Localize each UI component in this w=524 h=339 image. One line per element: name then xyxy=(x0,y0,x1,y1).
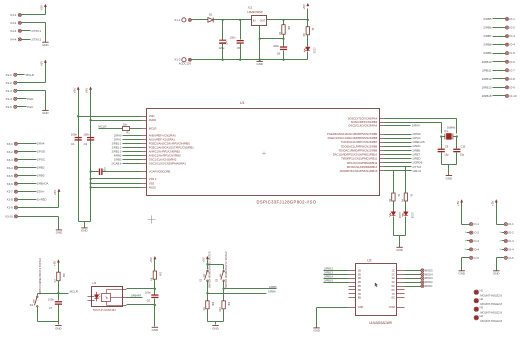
ground xyxy=(212,326,218,331)
capacitor C3 xyxy=(99,168,103,175)
svg-text:H4: H4 xyxy=(480,314,484,318)
resistor R8 xyxy=(307,20,309,27)
svg-text:8B: 8B xyxy=(358,296,361,300)
svg-text:1/RB4: 1/RB4 xyxy=(268,289,276,293)
svg-text:AN1/VREF-/CN3/RA1: AN1/VREF-/CN3/RA1 xyxy=(149,137,176,141)
ground xyxy=(259,60,261,62)
svg-text:8C: 8C xyxy=(392,296,395,300)
svg-text:VSS: VSS xyxy=(149,181,155,185)
svg-text:GND: GND xyxy=(152,328,158,332)
svg-text:DSPIC33FJ128GP802-I/SO: DSPIC33FJ128GP802-I/SO xyxy=(257,200,317,205)
wire C6 to ground xyxy=(154,299,156,327)
wire X3-9 to +5V xyxy=(18,207,59,209)
wire X4-4 net TX0:2 xyxy=(22,39,31,41)
U1 left pin stubs xyxy=(142,116,147,118)
svg-text:2/RA4: 2/RA4 xyxy=(37,142,45,146)
svg-text:PGC: PGC xyxy=(27,105,33,109)
svg-text:1/RB4/IR: 1/RB4/IR xyxy=(131,293,142,297)
wire U2 output 1 xyxy=(405,270,421,272)
wire net 2/RB13 xyxy=(324,274,349,276)
svg-text:H2: H2 xyxy=(480,297,484,301)
wire R4 to LED3 xyxy=(405,201,407,212)
svg-text:1/PGC: 1/PGC xyxy=(37,158,45,162)
svg-text:X4-2: X4-2 xyxy=(10,21,17,25)
svg-text:X3-2: X3-2 xyxy=(7,150,14,154)
svg-text:MOD2: MOD2 xyxy=(425,280,433,284)
wire net 1/RB6 xyxy=(385,150,412,152)
wire net 1/PGD xyxy=(385,134,412,136)
LED1 xyxy=(304,47,310,52)
svg-text:2/RA0: 2/RA0 xyxy=(114,133,122,137)
svg-text:GND: GND xyxy=(358,305,364,309)
svg-text:X3-10: X3-10 xyxy=(5,215,13,219)
connector pin MOD3 xyxy=(421,277,424,280)
svg-text:X1-1: X1-1 xyxy=(174,18,181,22)
supply +5V xyxy=(456,199,463,206)
svg-text:IO-3: IO-3 xyxy=(508,239,514,243)
svg-text:Q1: Q1 xyxy=(444,129,448,133)
svg-text:2/+RED: 2/+RED xyxy=(37,197,47,201)
cursor mark xyxy=(375,282,378,287)
wire net 2/RB1:3 xyxy=(123,151,142,153)
wire MCLR xyxy=(99,128,123,130)
svg-text:AN0/VREF+/CN2/RA0: AN0/VREF+/CN2/RA0 xyxy=(149,133,176,137)
wire net RA4 xyxy=(385,125,411,127)
mount hole H2 xyxy=(474,298,479,303)
svg-text:S1: S1 xyxy=(30,303,34,307)
wire net 2/RB12 xyxy=(493,78,506,80)
svg-text:GND: GND xyxy=(56,231,62,235)
svg-text:C9: C9 xyxy=(445,145,449,149)
svg-text:IO-1: IO-1 xyxy=(509,17,515,21)
junction xyxy=(282,38,284,40)
svg-text:GND: GND xyxy=(42,43,48,47)
wire 0V rail xyxy=(192,59,308,61)
svg-text:+5V: +5V xyxy=(85,87,89,94)
svg-text:X4-3: X4-3 xyxy=(10,29,17,33)
svg-text:2/RB5: 2/RB5 xyxy=(483,17,491,21)
svg-text:SOSCO/T1CK/CN0/RA4: SOSCO/T1CK/CN0/RA4 xyxy=(348,117,378,121)
svg-text:IO-4: IO-4 xyxy=(508,247,514,251)
svg-text:1/RB3: 1/RB3 xyxy=(114,157,122,161)
wire net 2/RB15 xyxy=(493,95,506,97)
svg-text:GND: GND xyxy=(55,326,61,330)
svg-text:C10: C10 xyxy=(461,145,466,149)
supply +5V xyxy=(53,259,60,266)
svg-text:TDO/DAC1LP/RP8/CN22/RB8: TDO/DAC1LP/RP8/CN22/RB8 xyxy=(341,144,378,148)
svg-text:2/RA4: 2/RA4 xyxy=(412,124,420,128)
svg-text:TMS/RP11/CN15/PMD1/RB11: TMS/RP11/CN15/PMD1/RB11 xyxy=(341,157,378,161)
svg-text:TCNT-P-CONT-B1: TCNT-P-CONT-B1 xyxy=(93,308,117,312)
svg-text:2/RB+DA: 2/RB+DA xyxy=(37,182,49,186)
connector pin IO-1 xyxy=(505,17,508,20)
svg-text:+5V: +5V xyxy=(72,87,76,94)
wire X3-10 to GND xyxy=(18,216,59,218)
svg-text:TCK/DAC1LN/RP7/CN23/RB7: TCK/DAC1LN/RP7/CN23/RB7 xyxy=(341,140,378,144)
wire net 2/RB5 xyxy=(493,18,506,20)
wire rail B xyxy=(90,90,92,222)
wire S1 to ground run xyxy=(37,307,39,322)
wire net 2/RB14 xyxy=(324,278,349,280)
svg-text:4B: 4B xyxy=(358,280,361,284)
svg-text:GND: GND xyxy=(212,326,218,330)
switch S3 xyxy=(220,270,224,281)
U2 right pin stubs xyxy=(397,270,405,272)
wire AVDD to U1 xyxy=(91,120,142,122)
svg-text:2/RB8: 2/RB8 xyxy=(483,43,491,47)
supply +5V xyxy=(149,256,156,263)
resistor R4 xyxy=(404,193,407,201)
junction xyxy=(222,59,224,61)
wire +5V to pin 1 xyxy=(496,203,498,225)
svg-text:MCLR: MCLR xyxy=(26,73,34,77)
wire X2-4 net PGD xyxy=(17,98,27,100)
mount hole H4 xyxy=(474,315,479,320)
junction xyxy=(222,19,224,21)
connector pin X7-1 xyxy=(504,223,507,226)
svg-text:LM2937ESP: LM2937ESP xyxy=(247,10,263,14)
ground xyxy=(313,328,319,333)
resistor R3 xyxy=(392,193,395,201)
wire net 2/RA0 xyxy=(123,135,142,137)
svg-text:SWITCH-MOMENTARY-2,TASTER: SWITCH-MOMENTARY-2,TASTER xyxy=(225,251,228,288)
svg-text:2/TX0:2: 2/TX0:2 xyxy=(31,37,41,41)
diode D1 xyxy=(208,18,213,23)
connector pin MOD1 xyxy=(421,284,424,287)
svg-text:C4: C4 xyxy=(224,41,228,45)
resistor R10 xyxy=(222,301,225,309)
U4 left pin stubs xyxy=(88,296,95,298)
svg-text:AN5/C1IN+/RP3/CN7/RB3: AN5/C1IN+/RP3/CN7/RB3 xyxy=(149,153,181,157)
svg-text:D1: D1 xyxy=(209,13,213,17)
svg-text:MCLR: MCLR xyxy=(70,290,78,294)
svg-text:2/RB1:2: 2/RB1:2 xyxy=(112,145,122,149)
wire pin 5 to GND xyxy=(462,257,470,259)
connector pin IO-4 xyxy=(505,43,508,46)
svg-text:C8: C8 xyxy=(277,51,281,55)
wire net MCLR xyxy=(59,293,69,295)
U1 origin cross xyxy=(262,152,266,156)
svg-text:100n: 100n xyxy=(48,298,54,302)
U4 right pin stubs xyxy=(123,289,127,291)
svg-text:100n: 100n xyxy=(145,290,151,294)
connector pin X6-3 xyxy=(467,240,470,242)
supply +5V xyxy=(202,256,209,263)
wire pin 5 to GND xyxy=(497,257,505,259)
wire to R3 xyxy=(393,171,395,193)
capacitor C8 xyxy=(283,39,285,47)
connector pin X7-5 xyxy=(504,256,507,259)
connector pin MOD5 xyxy=(421,269,424,272)
wire X4-2 to GND xyxy=(22,22,46,24)
svg-text:LED2: LED2 xyxy=(398,212,401,219)
svg-text:6C: 6C xyxy=(392,288,395,292)
supply +5V xyxy=(490,199,497,206)
wire net 2/RB15 xyxy=(324,282,349,284)
svg-text:C1: C1 xyxy=(71,142,75,146)
optocoupler U4 body xyxy=(92,287,123,307)
ground xyxy=(56,230,62,235)
svg-text:OSC1/CLKI/CN30/RA2: OSC1/CLKI/CN30/RA2 xyxy=(149,157,177,161)
svg-text:IO-7: IO-7 xyxy=(509,68,515,72)
svg-text:IO-1: IO-1 xyxy=(474,222,480,226)
svg-text:+5V: +5V xyxy=(202,256,206,263)
svg-text:GND: GND xyxy=(446,176,452,180)
svg-text:MOD4: MOD4 xyxy=(425,272,433,276)
svg-text:X3-5: X3-5 xyxy=(7,174,14,178)
wire to R7 xyxy=(58,263,60,273)
capacitor C1 xyxy=(75,137,82,141)
svg-text:C7: C7 xyxy=(49,306,53,310)
svg-text:1C: 1C xyxy=(392,268,395,272)
wire LED1 to rail xyxy=(307,52,309,60)
svg-text:2/RB2: 2/RB2 xyxy=(37,166,45,170)
connector pin MOD4 xyxy=(421,273,424,276)
wire U2 output 5 xyxy=(405,286,421,288)
svg-text:220u: 220u xyxy=(219,46,225,50)
svg-text:IO-2: IO-2 xyxy=(474,231,480,235)
svg-text:MOD1: MOD1 xyxy=(425,284,433,288)
svg-text:X2-5: X2-5 xyxy=(6,105,13,109)
wire OSC2 to crystal right xyxy=(385,118,457,120)
wire net 1/TTx2 xyxy=(385,166,412,168)
svg-text:X3-3: X3-3 xyxy=(7,158,14,162)
svg-text:GND: GND xyxy=(256,62,262,66)
wire +5V to pin 1 xyxy=(461,203,463,225)
resistor R2 xyxy=(283,20,285,25)
svg-text:C6: C6 xyxy=(147,298,151,302)
ground xyxy=(446,176,452,181)
svg-text:VDD: VDD xyxy=(149,114,155,118)
wire net 2/RB8 xyxy=(493,44,506,46)
svg-text:X1-2: X1-2 xyxy=(174,58,181,62)
svg-text:2/RB1:3: 2/RB1:3 xyxy=(112,149,122,153)
svg-text:ACDC12V: ACDC12V xyxy=(179,62,192,66)
crystal Q1 xyxy=(445,134,453,140)
resistor R1 xyxy=(123,127,130,131)
svg-text:2/RB10: 2/RB10 xyxy=(482,60,492,64)
ground xyxy=(55,326,61,331)
svg-text:C2: C2 xyxy=(84,142,88,146)
supply +5V rail B xyxy=(85,87,92,94)
U4 internal LED xyxy=(95,292,101,302)
wire net 2/RA1 xyxy=(123,139,142,141)
svg-text:IO-4: IO-4 xyxy=(474,247,480,251)
svg-text:X2-2: X2-2 xyxy=(6,81,13,85)
svg-text:MOUNT-HOLE2.8: MOUNT-HOLE2.8 xyxy=(480,294,502,298)
connector pin MOD2 xyxy=(421,281,424,284)
U4 internal wiring xyxy=(106,290,108,294)
svg-text:IO-9: IO-9 xyxy=(509,85,515,89)
junction xyxy=(206,263,208,265)
svg-text:X3-1: X3-1 xyxy=(7,142,14,146)
wire X3-4 net 2/RB2 xyxy=(18,167,37,169)
svg-text:X3-6: X3-6 xyxy=(7,182,14,186)
capacitor C4 electrolytic xyxy=(222,20,224,41)
svg-text:7B: 7B xyxy=(358,292,361,296)
svg-text:2B: 2B xyxy=(358,272,361,276)
svg-text:+5V: +5V xyxy=(149,256,153,263)
wire D1 to IC1 xyxy=(214,19,252,21)
junction xyxy=(154,288,156,290)
svg-text:IO-1: IO-1 xyxy=(508,222,514,226)
supply +5V rail A xyxy=(72,87,79,94)
wire X4-1 to +5V xyxy=(22,14,46,16)
svg-text:AN9/RP15/CN11/PMCS1/RB15: AN9/RP15/CN11/PMCS1/RB15 xyxy=(340,169,378,173)
connector pin IO-8 xyxy=(505,77,508,80)
svg-text:ULN2803ADWR: ULN2803ADWR xyxy=(369,321,392,325)
wire VCAP xyxy=(91,171,99,173)
svg-text:SWITCH-MOMENTARY-2,TASTER: SWITCH-MOMENTARY-2,TASTER xyxy=(39,258,42,295)
svg-text:PGD: PGD xyxy=(27,97,33,101)
svg-text:10u: 10u xyxy=(104,167,107,172)
connector pin IO-7 xyxy=(505,69,508,72)
svg-text:2/RB7: 2/RB7 xyxy=(483,34,491,38)
junction xyxy=(77,115,79,117)
svg-text:X2-1: X2-1 xyxy=(6,73,13,77)
wire U2 output 4 xyxy=(405,282,421,284)
U1 right pin stubs xyxy=(380,118,385,120)
connector pin X6-5 xyxy=(470,256,473,259)
svg-text:2/RA1: 2/RA1 xyxy=(114,137,122,141)
svg-text:PGED1/AN2/C2IN-/RP0/CN4/RB0: PGED1/AN2/C2IN-/RP0/CN4/RB0 xyxy=(149,141,190,145)
voltage regulator IC1 xyxy=(252,16,267,26)
junction xyxy=(206,292,208,294)
connector pin X7-2 xyxy=(502,232,505,234)
svg-text:LED1: LED1 xyxy=(312,47,315,54)
connector pin IO-9 xyxy=(505,86,508,89)
ground xyxy=(42,110,48,115)
svg-text:100n: 100n xyxy=(83,133,90,137)
svg-text:100n: 100n xyxy=(230,35,236,39)
svg-text:4C: 4C xyxy=(392,280,395,284)
svg-text:1/PGD: 1/PGD xyxy=(37,150,45,154)
switch S2 xyxy=(204,270,208,281)
wire R7 to junction xyxy=(58,281,60,294)
resistor R9 xyxy=(206,301,209,309)
svg-text:X3-9: X3-9 xyxy=(7,206,14,210)
wire to R4 xyxy=(405,167,407,193)
ground xyxy=(493,271,499,276)
junction xyxy=(89,119,91,121)
wire X1-1 to D1 xyxy=(192,19,208,21)
wire X2-2 to +5V xyxy=(17,82,46,84)
svg-text:IO-2: IO-2 xyxy=(508,231,514,235)
svg-text:GND: GND xyxy=(458,272,464,276)
wire OSC1 to crystal left xyxy=(385,122,442,124)
wire to R6 xyxy=(154,260,156,271)
wire X4-3 net TX0:1 xyxy=(22,30,31,32)
wire net 1/DRD6 xyxy=(385,162,412,164)
svg-text:2/DA+: 2/DA+ xyxy=(37,190,45,194)
ground xyxy=(152,327,158,332)
svg-text:15p: 15p xyxy=(460,153,465,157)
wire X3-3 net 1/PGC xyxy=(18,159,37,161)
svg-text:1B: 1B xyxy=(358,268,361,272)
svg-text:X3-4: X3-4 xyxy=(7,166,14,170)
svg-text:2/RB15: 2/RB15 xyxy=(324,278,333,282)
wire net 1/PGC xyxy=(385,138,412,140)
svg-text:LED3: LED3 xyxy=(411,212,414,219)
svg-text:SOSCI/RP4/CN1/RB4: SOSCI/RP4/CN1/RB4 xyxy=(351,120,378,124)
svg-text:X3-8: X3-8 xyxy=(7,198,14,202)
svg-text:+5V: +5V xyxy=(456,200,460,207)
svg-text:GND: GND xyxy=(313,329,319,333)
svg-text:OSC2/CLKO/CN29/PMA0/RA3: OSC2/CLKO/CN29/PMA0/RA3 xyxy=(149,161,187,165)
wire X3-6 net 2/RB+DA xyxy=(18,183,37,185)
svg-text:2/RB11: 2/RB11 xyxy=(482,68,492,72)
wire U4 emitter xyxy=(127,304,155,306)
svg-text:2/RB13: 2/RB13 xyxy=(482,85,492,89)
wire to S1 xyxy=(38,293,59,295)
svg-text:2/RB13: 2/RB13 xyxy=(324,271,333,275)
wire X3-5 net 1/RB3 xyxy=(18,175,37,177)
capacitor C5 xyxy=(240,20,242,40)
svg-text:4/RB2: 4/RB2 xyxy=(114,153,122,157)
svg-text:AVDD: AVDD xyxy=(149,118,156,122)
wire X3-8 net 2/+RED xyxy=(18,199,37,201)
wire U2 output 2 xyxy=(405,274,421,276)
svg-text:GND: GND xyxy=(493,272,499,276)
svg-text:1/RLx2: 1/RLx2 xyxy=(412,169,421,173)
supply +5V xyxy=(53,189,60,196)
connector pin IO-10 xyxy=(505,94,508,97)
svg-text:+5V: +5V xyxy=(40,4,44,11)
switch S1 xyxy=(37,294,39,296)
svg-text:MOD3: MOD3 xyxy=(425,276,433,280)
junction xyxy=(282,19,284,21)
svg-text:X4-4: X4-4 xyxy=(10,38,17,42)
svg-text:VCAP/VDDCORE: VCAP/VDDCORE xyxy=(149,170,171,174)
junction xyxy=(222,287,224,289)
svg-text:GND: GND xyxy=(396,248,402,252)
svg-text:+5V: +5V xyxy=(40,60,44,67)
junction xyxy=(440,135,442,137)
svg-text:X3-7: X3-7 xyxy=(7,190,14,194)
wire S3 bottom xyxy=(223,282,225,301)
svg-text:PGEC1/AN3/OA1OUT/RP1/CN5/RB1: PGEC1/AN3/OA1OUT/RP1/CN5/RB1 xyxy=(149,145,194,149)
svg-text:100n: 100n xyxy=(273,44,279,48)
svg-text:RP12/CN14/PMD0/RB12: RP12/CN14/PMD0/RB12 xyxy=(347,161,378,165)
svg-text:AVSS: AVSS xyxy=(149,185,156,189)
wire net 2/RB7 xyxy=(493,36,506,38)
svg-text:3C: 3C xyxy=(392,276,395,280)
wire adj link xyxy=(260,38,284,40)
svg-text:15p: 15p xyxy=(444,153,449,157)
connector pin IO-2 xyxy=(505,26,508,29)
connector pin X7-3 xyxy=(502,240,505,242)
svg-text:MOUNT-HOLE2.8: MOUNT-HOLE2.8 xyxy=(480,302,502,306)
wire IC1 out xyxy=(267,19,308,21)
wire net 1/ADC xyxy=(385,146,412,148)
svg-text:2/RB12: 2/RB12 xyxy=(482,77,492,81)
wire rails to ground xyxy=(79,221,91,223)
svg-text:2C: 2C xyxy=(392,272,395,276)
svg-text:IO-4: IO-4 xyxy=(509,43,515,47)
origin cross xyxy=(148,216,156,224)
svg-text:SWITCH-MOMENTARY-2,TASTER: SWITCH-MOMENTARY-2,TASTER xyxy=(209,251,212,288)
svg-text:IO-5: IO-5 xyxy=(509,51,515,55)
ground xyxy=(396,247,402,252)
connector pin IO-3 xyxy=(505,35,508,38)
wire R3 to LED2 xyxy=(393,201,395,212)
junction xyxy=(89,170,91,172)
svg-text:+5V: +5V xyxy=(53,260,57,267)
svg-text:GND: GND xyxy=(81,229,87,233)
wire caps to ground xyxy=(441,153,443,165)
wire X2-3 to GND xyxy=(17,90,46,92)
svg-text:TDI/DAC1RMID/RP9/CN21/RB9: TDI/DAC1RMID/RP9/CN21/RB9 xyxy=(339,148,378,152)
